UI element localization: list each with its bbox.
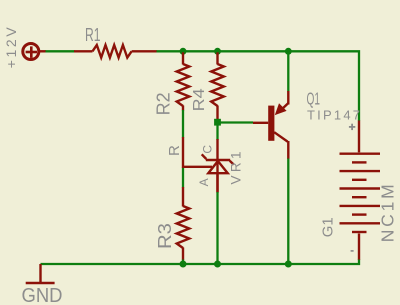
svg-text:R1: R1	[85, 24, 101, 45]
resistor R2	[177, 52, 190, 110]
bottom rail wire	[41, 260, 360, 265]
junction bottom rail at R3	[180, 261, 187, 268]
junction on rail at R2	[180, 48, 187, 55]
zener/reference VR1	[183, 137, 234, 193]
resistor R4	[211, 52, 224, 119]
wire top rail to battery column	[157, 51, 360, 121]
battery G1	[340, 121, 381, 261]
battery plus mark	[349, 124, 355, 130]
transistor Q1	[253, 91, 288, 159]
svg-text:C: C	[200, 145, 214, 154]
wire Q1 collector to bottom rail	[287, 159, 289, 265]
junction bottom rail at Q1 collector	[285, 261, 292, 268]
svg-text:Q1: Q1	[307, 89, 321, 109]
svg-text:TIP147: TIP147	[307, 108, 360, 123]
wire VR1 anode to bottom rail	[216, 192, 218, 264]
svg-text:NC1M: NC1M	[377, 184, 397, 242]
wire base node to Q1 base	[218, 121, 254, 123]
svg-text:+12V: +12V	[3, 27, 19, 69]
svg-text:VR1: VR1	[228, 152, 243, 185]
svg-text:R: R	[166, 145, 183, 156]
junction on rail at Q1 emitter	[285, 48, 292, 55]
wire R3 bottom to rail	[182, 260, 184, 265]
svg-text:G1: G1	[321, 217, 337, 237]
wire VR1 ref to R3	[182, 168, 184, 188]
battery minus mark	[351, 250, 354, 252]
svg-text:A: A	[197, 178, 211, 186]
wire R2 bottom to VR1 ref	[182, 110, 184, 138]
resistor R1	[74, 45, 157, 58]
wire R4 bottom through junction to VR1 cathode	[216, 119, 218, 140]
junction on rail at R4	[214, 48, 221, 55]
svg-text:R2: R2	[153, 92, 173, 115]
svg-text:GND: GND	[22, 284, 63, 305]
resistor R3	[177, 187, 190, 260]
wire rail to Q1 emitter	[287, 51, 289, 91]
supply symbol P+ +12V	[23, 44, 46, 60]
svg-text:R3: R3	[154, 223, 175, 249]
junction bottom rail at VR1	[214, 261, 221, 268]
wire from supply to R1	[46, 50, 75, 52]
svg-text:R4: R4	[191, 88, 208, 111]
junction at base node	[214, 119, 221, 126]
ground symbol GND	[26, 264, 55, 283]
